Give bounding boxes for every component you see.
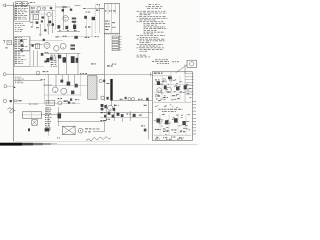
divider label	[43, 70, 46, 73]
connector P1 box	[7, 40, 11, 44]
wire drop x75	[74, 75, 76, 84]
wire drop x114	[113, 104, 115, 121]
resistor R16	[112, 26, 114, 29]
transformer T2 box	[35, 44, 39, 49]
scan edge hairline	[57, 143, 197, 145]
resistor R46	[100, 112, 103, 113]
capacitor C57	[101, 96, 105, 100]
jack J7	[4, 85, 7, 88]
wire horiz y85	[43, 84, 52, 86]
pilot lamp DS3	[190, 62, 194, 66]
capacitor C9	[83, 7, 86, 10]
capacitor C5	[41, 20, 43, 22]
resistor R36	[162, 81, 164, 82]
resistor R31	[85, 127, 88, 130]
resistor R30	[64, 101, 67, 102]
capacitor C70	[144, 129, 147, 132]
resistor R37	[155, 96, 156, 97]
connector ticks right edge lower	[193, 118, 196, 120]
terminal strip TB1 rows	[15, 5, 17, 8]
capacitor C33	[46, 58, 49, 62]
resistor R8	[72, 21, 76, 23]
power supply inner right rail	[184, 72, 186, 102]
resistor R23	[120, 99, 123, 100]
resistor R41	[163, 131, 165, 132]
wire drop x58	[57, 53, 59, 74]
capacitor C73	[112, 115, 115, 118]
resistor R5	[30, 22, 32, 23]
capacitor C36	[146, 98, 148, 101]
capacitor C45	[58, 113, 62, 118]
capacitor C19	[105, 28, 108, 31]
pilot lamp box	[187, 60, 196, 67]
capacitor C60 dark	[49, 21, 52, 24]
resistor R13	[109, 10, 110, 11]
resistor R38	[163, 97, 165, 98]
jack J6	[78, 128, 83, 133]
wire bus y112	[58, 111, 153, 113]
wire web v5	[79, 75, 81, 95]
tube V7	[52, 87, 58, 93]
capacitor C54	[165, 120, 168, 124]
tube V5	[54, 46, 59, 51]
capacitor C78	[104, 115, 106, 118]
capacitor C40	[67, 82, 71, 86]
tube V11	[157, 88, 162, 93]
antenna E1	[3, 4, 10, 7]
notes footer line 1	[137, 54, 139, 57]
label row	[29, 103, 31, 106]
jack J5	[3, 99, 6, 102]
capacitor C6	[31, 26, 33, 27]
resistor R32	[114, 105, 117, 106]
model label line 2	[162, 110, 164, 113]
resistor R44	[106, 82, 109, 85]
wire strip to tube	[30, 43, 43, 45]
wire ps bus y102	[154, 101, 191, 103]
capacitor C62	[62, 9, 64, 12]
resistor ladder stack	[51, 54, 53, 57]
capacitor C1	[30, 1, 33, 4]
capacitor C32	[71, 56, 75, 63]
U1 internal column 2	[111, 3, 113, 33]
wire U1 left lead	[100, 8, 104, 10]
transformer T1 can	[34, 14, 39, 20]
resistor R24	[138, 99, 140, 100]
wire drop x104 low	[103, 122, 105, 132]
capacitor C14	[59, 29, 61, 32]
terminal strip TB2 box	[15, 37, 30, 51]
terminal list rows lower	[15, 22, 18, 25]
capacitor C13	[92, 17, 95, 20]
meter M1 on divider	[36, 71, 40, 75]
wire dropper 3	[51, 10, 53, 33]
terminal strip TB3 box	[15, 51, 30, 66]
figure caption line 2	[152, 60, 154, 63]
resistor R26	[19, 100, 22, 101]
capacitor C7	[36, 27, 39, 28]
ps internal wires	[161, 76, 163, 100]
power supply title band	[152, 75, 171, 77]
tube V4	[44, 42, 50, 48]
wire lamp to box	[184, 65, 186, 74]
wire drop x56	[55, 75, 57, 87]
ps circle E1	[163, 79, 166, 82]
switch S1 internal	[22, 114, 41, 116]
sheet bottom border wire	[14, 140, 110, 142]
resistor R42	[171, 129, 173, 130]
wire web h4	[30, 39, 63, 41]
capacitor C68	[104, 105, 106, 108]
notes footer line 2	[137, 56, 139, 59]
resistor R27	[58, 98, 60, 99]
resistor R9	[86, 11, 88, 14]
wire web v7	[91, 22, 93, 37]
power supply enclosure box	[152, 72, 192, 141]
terminal strip TB2 rail	[29, 37, 31, 50]
resistor R20	[70, 45, 75, 47]
wire bar to cluster	[111, 101, 113, 106]
capacitor C67	[76, 58, 79, 63]
tube V8	[61, 88, 67, 94]
lamp DS2	[132, 98, 135, 101]
wire web v1	[31, 9, 33, 26]
wire drop x68	[67, 75, 69, 82]
secondary chassis wire	[14, 80, 42, 82]
wire web h6	[44, 94, 82, 96]
chassis divider wire left	[14, 74, 105, 76]
connector ticks upper	[185, 73, 192, 75]
capacitor C50	[168, 76, 172, 79]
wire from S1	[42, 113, 60, 115]
wire web h3	[55, 36, 95, 38]
wire diagonal lead	[176, 65, 188, 73]
ps scatter mid row	[155, 105, 157, 108]
capacitor C27	[44, 60, 46, 62]
resistor R29	[75, 99, 77, 100]
capacitor C46	[101, 104, 104, 107]
terminal strip TB1 box	[15, 6, 30, 22]
U1 internal column 1	[107, 3, 109, 14]
node B junction	[13, 44, 14, 45]
capacitor C31	[63, 57, 66, 62]
resistor R3	[31, 12, 34, 13]
resistor R10	[85, 26, 87, 27]
wire drop x106	[105, 104, 107, 121]
terminal strip TB1 right rail wire	[29, 6, 31, 21]
terminal rows J	[15, 76, 17, 79]
notes heading line 3	[147, 7, 150, 10]
resistor R14	[113, 10, 116, 11]
ps internal bus 1	[154, 84, 192, 86]
resistor R50	[72, 102, 75, 105]
scan fold bar dark	[0, 143, 22, 146]
lamp DS1	[128, 98, 131, 101]
capacitor C74	[125, 97, 127, 99]
sheet left border wire	[13, 2, 15, 141]
wire drop x122	[121, 118, 123, 122]
wire vertical x63	[62, 7, 64, 30]
wire bus y53	[44, 52, 80, 54]
resistor R17	[45, 52, 47, 53]
capacitor C22	[21, 44, 24, 46]
capacitor C3	[41, 16, 44, 18]
wire drop x48	[47, 75, 49, 104]
resistor R49	[106, 119, 107, 120]
resistor R43	[180, 131, 182, 132]
wire bus y121	[58, 121, 105, 123]
resistor R18	[55, 36, 58, 37]
capacitor C52	[184, 85, 187, 89]
capacitor C23	[20, 49, 22, 51]
wire web h5	[44, 85, 87, 87]
tuning capacitor hatched block	[88, 76, 97, 99]
script annotation	[8, 108, 16, 114]
capacitor C71	[32, 45, 34, 47]
node A junction	[28, 3, 29, 4]
capacitor C17	[105, 22, 107, 25]
wire drop x58	[58, 107, 60, 126]
wire y103	[44, 102, 80, 104]
wire vertical x119	[119, 33, 121, 50]
wire plate run	[55, 6, 70, 8]
node C junction	[14, 87, 15, 88]
wire y131	[93, 131, 104, 133]
tube V10	[108, 105, 113, 110]
capacitor C43	[70, 98, 72, 100]
filter choke bar	[110, 79, 112, 101]
jack J4	[3, 73, 6, 76]
wire web v6	[85, 19, 87, 37]
divider end tick	[150, 73, 152, 77]
resistor R4	[36, 12, 39, 13]
capacitor C66	[96, 10, 98, 11]
chassis divider wire far right	[104, 74, 152, 76]
capacitor C16	[105, 20, 108, 23]
tube V12	[166, 87, 171, 92]
capacitor C2	[50, 7, 52, 9]
shield partition dashed	[54, 3, 56, 30]
tube V2	[47, 12, 51, 16]
label tag x108	[107, 65, 110, 66]
wire bus y100	[113, 99, 153, 101]
ground symbol G1	[39, 35, 41, 37]
resistor R35	[155, 79, 157, 80]
ps scatter parts lower	[166, 126, 168, 129]
capacitor C8	[44, 29, 46, 31]
connector J2 label box	[22, 2, 27, 6]
chassis hatch under U1	[104, 33, 105, 35]
wire web h1	[30, 9, 55, 11]
power supply title	[154, 73, 157, 74]
signature script	[86, 137, 111, 141]
wire vertical x148	[148, 100, 150, 139]
capacitor C42	[71, 91, 74, 95]
capacitor C18	[105, 25, 108, 28]
capacitor C20	[5, 46, 7, 49]
capacitor C15	[67, 29, 69, 32]
capacitor C65	[84, 16, 87, 19]
wire web v4	[43, 79, 45, 103]
capacitor C26	[41, 53, 44, 56]
resistor R51	[85, 130, 87, 133]
capacitor C76	[164, 85, 167, 89]
capacitor C10	[97, 3, 99, 6]
wire web h2	[30, 13, 48, 15]
capacitor C37	[10, 100, 12, 102]
wire antenna lead	[9, 4, 14, 6]
wire web v2	[43, 9, 45, 29]
capacitor C53	[156, 118, 160, 122]
connector ticks right edge mid	[193, 101, 196, 103]
wire dropper 2	[47, 17, 49, 34]
capacitor C11	[57, 25, 60, 28]
label TP	[57, 137, 58, 140]
speaker LS1 box	[63, 126, 76, 134]
ps bottom row parts	[156, 136, 159, 139]
wire bus y117	[100, 117, 149, 119]
capacitor C58	[107, 97, 109, 100]
module enclosure U1 box	[104, 3, 119, 33]
capacitor C21	[20, 40, 23, 42]
resistor R34	[139, 115, 142, 116]
wire drop x130	[129, 111, 131, 121]
wire web h7	[14, 103, 44, 105]
switch S1 box	[22, 112, 41, 118]
wire row y31	[57, 30, 80, 32]
terminal strip TB2 rows	[15, 36, 17, 39]
resistor R25	[14, 100, 18, 102]
wire drop x37	[36, 50, 38, 66]
tube V1	[37, 7, 41, 11]
switch S2 box	[46, 100, 55, 105]
resistor R22	[91, 63, 94, 64]
capacitor C61 dark	[52, 23, 54, 25]
wire drop x62	[61, 75, 63, 81]
connector J1 label box	[15, 2, 21, 6]
notes heading line 2	[146, 5, 147, 8]
crystal Y1	[32, 120, 37, 126]
terminal list rows F2	[15, 51, 17, 54]
wire to box	[87, 8, 105, 10]
notes body text	[137, 10, 140, 13]
capacitor C47	[101, 108, 104, 111]
wire horiz y66	[14, 65, 44, 67]
capacitor C75	[157, 81, 160, 85]
ps internal bus 2	[154, 91, 192, 93]
resistor R12	[105, 10, 107, 11]
notes heading line 1	[149, 3, 152, 6]
wire drop x66	[65, 53, 67, 74]
tube V3	[63, 16, 69, 22]
tube V9	[58, 101, 62, 105]
resistor R28	[64, 100, 66, 101]
capacitor C41	[75, 84, 78, 88]
label above diagonal	[172, 60, 174, 63]
capacitor C51	[176, 86, 179, 90]
wire dropper 1	[39, 24, 41, 35]
secondary wire end label	[41, 78, 43, 81]
ps scatter parts upper	[176, 82, 178, 85]
capacitor C4	[36, 21, 39, 23]
wire drop x75	[74, 23, 76, 32]
capacitor C59 dark	[45, 128, 50, 131]
capacitor C72	[43, 39, 45, 41]
wire web v3	[99, 4, 101, 33]
capacitor C35	[103, 80, 105, 83]
ps bottom row parts 2	[155, 138, 158, 141]
ps circle E2	[170, 79, 173, 82]
resistor R21	[70, 48, 75, 50]
rectifier CR1	[117, 113, 120, 116]
capacitor C77	[113, 108, 115, 111]
wire main vertical x104	[103, 33, 105, 101]
capacitor C69	[108, 112, 111, 115]
shield dashed line 2	[94, 5, 96, 33]
resistor R11	[74, 29, 77, 32]
resistor R40	[155, 129, 157, 130]
capacitor C55	[174, 118, 178, 122]
resistor R47	[100, 120, 102, 121]
capacitor C56	[182, 121, 185, 125]
U1 internal column 3	[114, 3, 116, 14]
resistor R33	[127, 113, 129, 114]
wire bus top	[22, 5, 53, 7]
resistor R15	[112, 21, 115, 24]
wire ps bus y135	[154, 134, 191, 136]
capacitor C44	[68, 101, 70, 103]
connector pins	[112, 36, 119, 38]
label tag	[112, 64, 114, 65]
wire drop x78	[77, 53, 79, 74]
figure caption line 1	[155, 58, 158, 61]
resistor R39	[172, 95, 175, 96]
resistor R48	[141, 125, 143, 126]
resistor R7	[72, 18, 76, 20]
resistor R1	[31, 7, 34, 8]
resistor R45	[47, 25, 48, 26]
component ladder stack 2	[48, 107, 50, 136]
resistor R19	[63, 36, 64, 37]
tube V6	[60, 43, 66, 49]
capacitor C24	[58, 55, 61, 59]
figure caption line 3	[157, 62, 158, 65]
capacitor C48	[133, 114, 136, 117]
capacitor C12	[65, 26, 68, 29]
phono jack J3	[3, 41, 5, 43]
capacitor C63	[70, 9, 72, 11]
resistor R2	[43, 8, 46, 9]
model label line 1	[159, 108, 161, 111]
capacitor C39	[60, 80, 63, 83]
resistor R6	[63, 6, 66, 7]
label model note	[92, 128, 95, 131]
capacitor C64	[73, 25, 76, 29]
wire drop x33	[32, 50, 34, 66]
inductor L1	[75, 4, 81, 7]
capacitor C49	[144, 105, 147, 106]
capacitor C34	[99, 79, 102, 82]
capacitor C30	[95, 36, 96, 37]
capacitor C28	[74, 36, 77, 39]
rectifier CR2	[121, 114, 124, 117]
capacitor C29	[85, 37, 88, 38]
hatch block label	[80, 72, 81, 75]
capacitor C38	[28, 128, 30, 131]
capacitor C25	[50, 57, 53, 60]
